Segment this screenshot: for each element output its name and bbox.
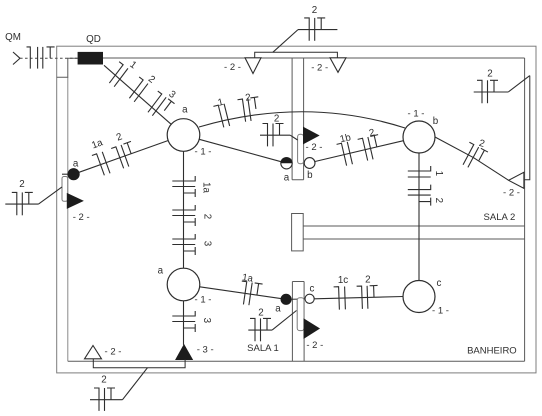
conduit marks 2 xyxy=(357,285,379,309)
svg-text:2: 2 xyxy=(19,179,24,190)
svg-text:QD: QD xyxy=(86,34,101,45)
svg-text:- 2 -: - 2 - xyxy=(311,63,328,74)
svg-text:c: c xyxy=(437,278,442,289)
svg-text:a: a xyxy=(275,304,281,315)
conduit 2 SALA 1 xyxy=(248,329,272,331)
conduit 2 SALA 2 ceiling (top right) xyxy=(474,91,509,93)
svg-text:- 1 -: - 1 - xyxy=(195,147,212,158)
vertical wire a to a xyxy=(183,151,185,268)
arc wire a to b xyxy=(199,112,405,128)
svg-text:2: 2 xyxy=(433,198,444,203)
svg-text:- 2 -: - 2 - xyxy=(73,212,90,223)
conduit marks 3 on QD wire xyxy=(144,91,175,122)
svg-text:2: 2 xyxy=(365,274,370,285)
wire a-bottom to switch a (lower wall) xyxy=(200,287,281,299)
wire conduit to wall box xyxy=(290,135,297,140)
svg-text:2: 2 xyxy=(101,375,106,386)
wire junction b to luminaire b xyxy=(315,141,403,162)
conduit 2 outside bottom wall xyxy=(90,399,123,401)
QM conduit marks xyxy=(27,47,55,69)
outlet -2- lower interior wall (filled triangle) xyxy=(304,319,319,338)
svg-text:b: b xyxy=(433,116,439,127)
outlet -3- bottom wall (filled triangle) xyxy=(176,345,192,360)
wire conduit to right wall xyxy=(508,76,530,92)
wire cavity to outside conduit xyxy=(123,368,148,400)
svg-text:1a: 1a xyxy=(201,182,212,193)
outlet -2- right wall (open triangle) xyxy=(509,172,524,188)
svg-text:SALA 1: SALA 1 xyxy=(247,343,279,354)
svg-text:a: a xyxy=(182,105,188,116)
svg-text:a: a xyxy=(73,158,79,169)
conduit 2 outside left wall xyxy=(5,203,38,205)
svg-text:- 1 -: - 1 - xyxy=(408,109,425,120)
conduit marks 1 on QD wire xyxy=(105,62,128,87)
wire conduit to wall xyxy=(39,187,63,204)
wall entry notch at QM xyxy=(57,58,78,77)
svg-text:- 2 -: - 2 - xyxy=(105,347,122,358)
conduit marks 1a xyxy=(238,281,262,307)
svg-text:2: 2 xyxy=(258,308,263,319)
conduit marks 2 on QD wire xyxy=(125,77,148,102)
inner wall right line xyxy=(524,58,526,361)
svg-text:- 2 -: - 2 - xyxy=(306,142,323,153)
conduit marks 1c xyxy=(334,287,346,310)
svg-text:BANHEIRO: BANHEIRO xyxy=(467,346,517,357)
wire in bottom wall cavity xyxy=(93,359,185,368)
wire junction c to luminaire c xyxy=(314,297,403,299)
svg-text:a: a xyxy=(284,172,290,183)
svg-text:2: 2 xyxy=(202,214,213,219)
switch a left wall (filled) xyxy=(62,173,68,175)
luminaire c xyxy=(403,281,435,313)
svg-text:1a: 1a xyxy=(241,272,254,285)
conduit marks 2 xyxy=(408,185,431,206)
wire conduit to lower wall box xyxy=(272,311,296,331)
svg-text:3: 3 xyxy=(202,241,213,247)
wire QD to luminaire a xyxy=(104,65,171,124)
svg-text:QM: QM xyxy=(5,32,21,43)
wire conduit to top wall xyxy=(273,30,298,53)
switch a interior wall (half-filled) xyxy=(281,158,292,169)
svg-text:- 1 -: - 1 - xyxy=(195,295,212,306)
outlet -2- bottom wall (open triangle) xyxy=(85,346,102,359)
inner wall top line xyxy=(103,57,525,59)
luminaire b xyxy=(403,121,435,153)
conduit marks 2 xyxy=(358,135,384,162)
conduit box lower interior wall xyxy=(297,298,304,331)
interior wall lower vertical xyxy=(292,282,304,362)
inner wall bottom line xyxy=(68,360,525,362)
QM feeder dashed line xyxy=(20,57,78,59)
svg-text:SALA 2: SALA 2 xyxy=(484,212,516,223)
junction b interior wall (open circle) xyxy=(304,158,315,169)
conduit marks 1b xyxy=(337,142,353,167)
conduit marks 1 on arc xyxy=(213,104,229,129)
conduit marks 2 xyxy=(172,205,195,226)
svg-text:2: 2 xyxy=(487,69,492,80)
conduit box upper interior wall xyxy=(298,134,304,163)
wire wall to junction c xyxy=(291,298,305,300)
svg-text:2: 2 xyxy=(274,114,279,125)
wire in top wall cavity xyxy=(255,52,338,58)
svg-text:- 2 -: - 2 - xyxy=(306,340,323,351)
conduit marks 2 xyxy=(459,142,488,172)
wire a to switch a (left wall) xyxy=(79,141,168,173)
svg-text:- 3 -: - 3 - xyxy=(197,344,214,355)
svg-text:3: 3 xyxy=(201,318,212,324)
svg-text:- 2 -: - 2 - xyxy=(503,188,520,199)
svg-text:2: 2 xyxy=(312,5,317,16)
outlet -2- interior wall (filled triangle) xyxy=(304,128,319,144)
svg-text:1c: 1c xyxy=(338,275,348,286)
switch a lower interior wall (filled) xyxy=(200,287,281,299)
conduit marks 3 xyxy=(172,234,195,255)
interior wall upper vertical xyxy=(292,58,304,180)
wire a to switch a (interior wall) xyxy=(199,139,281,161)
QM entry chevron xyxy=(13,52,20,65)
outlet -2- top wall right (open triangle) xyxy=(330,58,346,73)
QD distribution board xyxy=(78,52,103,65)
top ceiling conduit 2 xyxy=(298,29,337,31)
svg-text:1: 1 xyxy=(433,171,444,176)
svg-text:- 2 -: - 2 - xyxy=(224,62,241,73)
wire b to outlet right wall xyxy=(435,137,509,180)
inner wall left line xyxy=(67,77,69,361)
wire in right wall cavity xyxy=(524,76,530,180)
svg-text:a: a xyxy=(158,265,164,276)
junction c lower interior wall (open circle) xyxy=(305,294,314,303)
interior wall T-stub xyxy=(292,214,304,251)
svg-text:c: c xyxy=(310,284,315,295)
conduit box left wall xyxy=(62,177,68,202)
luminaire a (bottom) xyxy=(167,268,200,301)
svg-text:- 1 -: - 1 - xyxy=(432,305,449,316)
outlet -2- left wall (filled triangle) xyxy=(67,194,82,208)
conduit marks 1a xyxy=(172,176,195,197)
conduit marks 2 on arc xyxy=(237,97,261,123)
svg-text:b: b xyxy=(307,170,313,181)
outer wall rectangle xyxy=(57,46,536,373)
conduit marks 1a xyxy=(92,152,110,177)
conduit marks 2 xyxy=(111,141,139,170)
conduit marks 1 xyxy=(408,166,431,177)
conduit marks 3 xyxy=(172,311,195,332)
conduit 2 near interior wall xyxy=(260,134,290,136)
vertical wire a-bottom to outlet -3- xyxy=(183,301,185,345)
vertical wire b to c xyxy=(418,153,420,281)
interior wall horizontal (SALA2/BANHEIRO) xyxy=(303,226,524,239)
luminaire a (top) xyxy=(167,119,200,152)
outlet -2- top wall left (open triangle) xyxy=(245,58,261,74)
